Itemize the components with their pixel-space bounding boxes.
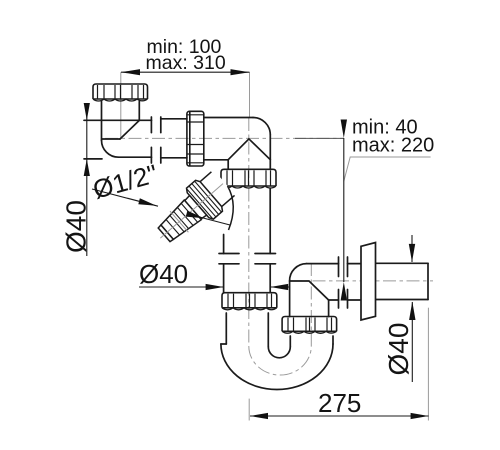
- svg-text:Ø40: Ø40: [61, 200, 92, 253]
- svg-text:275: 275: [318, 388, 361, 418]
- svg-text:max: 310: max: 310: [146, 52, 226, 74]
- svg-text:Ø40: Ø40: [383, 323, 414, 376]
- svg-text:Ø40: Ø40: [139, 259, 188, 289]
- svg-text:max: 220: max: 220: [352, 135, 434, 157]
